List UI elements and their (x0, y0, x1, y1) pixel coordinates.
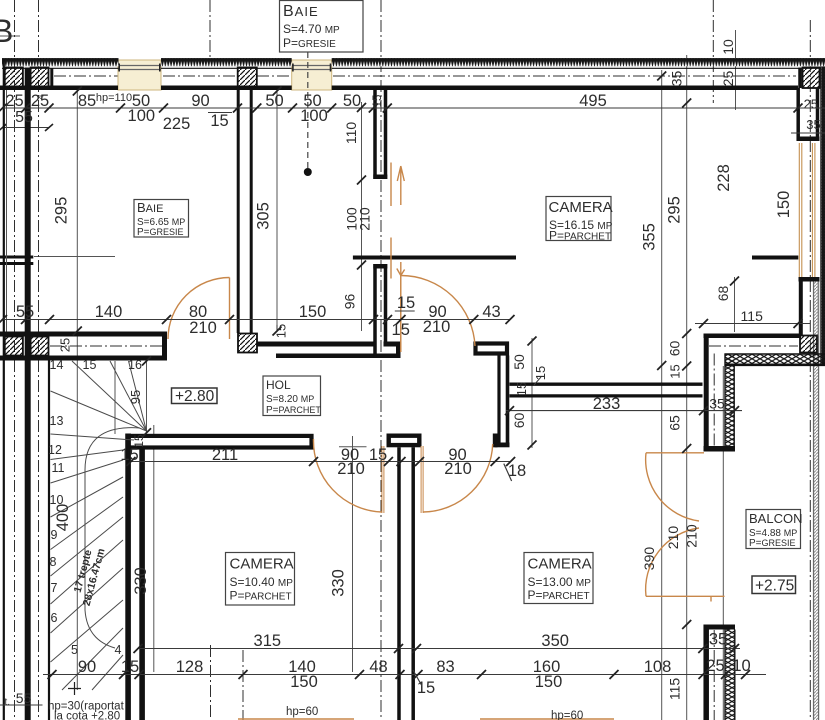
svg-text:355: 355 (641, 223, 659, 251)
svg-text:P=PARCHET: P=PARCHET (266, 405, 321, 416)
svg-text:25: 25 (5, 92, 23, 110)
svg-text:35: 35 (669, 71, 685, 87)
svg-text:HOL: HOL (266, 378, 291, 392)
svg-text:P=PARCHET: P=PARCHET (230, 589, 292, 603)
svg-text:210: 210 (665, 526, 681, 550)
svg-text:BALCON: BALCON (749, 511, 802, 526)
svg-text:140: 140 (95, 303, 123, 321)
svg-text:la cota +2.80: la cota +2.80 (54, 711, 120, 720)
svg-text:233: 233 (593, 395, 621, 413)
svg-text:+2.80: +2.80 (175, 388, 215, 405)
svg-text:P=GRESIE: P=GRESIE (137, 227, 184, 238)
svg-text:65: 65 (667, 415, 683, 431)
svg-text:115: 115 (741, 308, 764, 324)
svg-text:55: 55 (15, 109, 33, 126)
svg-text:60: 60 (667, 341, 683, 357)
svg-text:330: 330 (330, 569, 348, 597)
svg-text:16: 16 (128, 358, 142, 372)
svg-text:S=4.70 MP: S=4.70 MP (283, 22, 340, 36)
svg-text:12: 12 (48, 443, 62, 457)
svg-text:15: 15 (369, 446, 387, 464)
svg-text:128: 128 (176, 658, 204, 676)
svg-text:9: 9 (51, 528, 58, 542)
svg-text:55: 55 (16, 690, 32, 706)
svg-text:CAMERA: CAMERA (230, 556, 294, 573)
svg-text:15: 15 (121, 658, 139, 676)
svg-text:210: 210 (189, 319, 217, 337)
svg-text:35: 35 (806, 117, 820, 132)
svg-text:25: 25 (720, 71, 736, 87)
svg-text:295: 295 (666, 196, 684, 224)
svg-text:CAMERA: CAMERA (528, 556, 592, 573)
svg-text:BAIE: BAIE (283, 3, 319, 20)
svg-text:210: 210 (337, 460, 365, 478)
svg-text:t.: t. (5, 697, 11, 708)
svg-text:110: 110 (343, 122, 359, 145)
svg-text:305: 305 (255, 202, 273, 230)
svg-text:150: 150 (535, 673, 563, 691)
svg-text:210: 210 (684, 524, 700, 548)
svg-text:P=GRESIE: P=GRESIE (749, 538, 796, 549)
svg-text:68: 68 (715, 286, 731, 302)
svg-text:390: 390 (641, 547, 657, 571)
svg-text:B: B (0, 13, 13, 49)
svg-text:50: 50 (511, 354, 527, 370)
svg-text:15: 15 (397, 294, 415, 312)
svg-text:315: 315 (254, 632, 282, 650)
svg-text:100: 100 (128, 107, 156, 125)
svg-text:50: 50 (265, 92, 283, 110)
svg-text:350: 350 (541, 632, 569, 650)
svg-text:95: 95 (128, 390, 143, 404)
svg-text:15: 15 (514, 382, 529, 396)
svg-text:90: 90 (78, 658, 96, 676)
svg-text:10: 10 (50, 493, 64, 507)
svg-text:25: 25 (31, 92, 49, 110)
svg-text:13: 13 (50, 414, 64, 428)
svg-text:25: 25 (58, 338, 73, 352)
svg-text:60: 60 (511, 413, 527, 429)
svg-text:115: 115 (667, 678, 683, 701)
svg-text:S=8.20 MP: S=8.20 MP (266, 394, 314, 405)
svg-text:P=PARCHET: P=PARCHET (549, 229, 611, 243)
svg-text:210: 210 (423, 318, 451, 336)
svg-text:225: 225 (163, 115, 191, 133)
svg-text:25: 25 (706, 657, 724, 675)
svg-text:83: 83 (436, 658, 454, 676)
svg-text:14: 14 (50, 358, 64, 372)
svg-text:S=10.40 MP: S=10.40 MP (230, 575, 294, 589)
svg-text:11: 11 (52, 461, 65, 475)
svg-text:150: 150 (299, 303, 327, 321)
svg-text:15: 15 (274, 324, 289, 338)
svg-text:hp=60: hp=60 (551, 710, 583, 720)
svg-text:8: 8 (50, 555, 57, 569)
svg-text:7: 7 (51, 581, 58, 595)
svg-text:4: 4 (115, 643, 122, 657)
svg-text:150: 150 (290, 673, 318, 691)
svg-text:85: 85 (78, 92, 96, 110)
svg-text:108: 108 (644, 658, 672, 676)
svg-text:10: 10 (720, 39, 736, 55)
svg-text:43: 43 (482, 303, 500, 321)
svg-text:15: 15 (120, 446, 138, 464)
svg-text:15: 15 (83, 358, 97, 372)
svg-text:10: 10 (732, 657, 750, 675)
svg-text:hp=60: hp=60 (286, 706, 318, 718)
svg-text:35: 35 (709, 631, 727, 649)
svg-text:50: 50 (343, 92, 361, 110)
svg-text:hp=110: hp=110 (96, 92, 132, 104)
svg-text:15: 15 (668, 364, 683, 378)
svg-text:25: 25 (804, 97, 818, 112)
svg-text:96: 96 (342, 294, 358, 310)
svg-text:+2.75: +2.75 (755, 578, 794, 595)
svg-text:210: 210 (357, 207, 373, 231)
svg-text:15: 15 (372, 95, 384, 108)
svg-text:P=GRESIE: P=GRESIE (283, 36, 336, 50)
svg-text:295: 295 (53, 197, 71, 225)
svg-text:210: 210 (444, 460, 472, 478)
svg-text:BAIE: BAIE (137, 200, 163, 215)
svg-text:35: 35 (709, 396, 725, 412)
svg-text:150: 150 (775, 191, 793, 219)
svg-text:330: 330 (132, 567, 150, 595)
svg-text:S=13.00 MP: S=13.00 MP (528, 575, 592, 589)
svg-text:48: 48 (369, 658, 387, 676)
svg-text:495: 495 (579, 92, 607, 110)
svg-text:90: 90 (191, 92, 209, 110)
svg-text:6: 6 (51, 611, 58, 625)
svg-text:228: 228 (715, 164, 733, 192)
svg-text:15: 15 (392, 321, 410, 339)
svg-text:15: 15 (210, 112, 228, 130)
svg-text:15: 15 (132, 434, 146, 448)
svg-text:CAMERA: CAMERA (549, 199, 613, 216)
svg-text:55: 55 (16, 303, 34, 321)
svg-text:100: 100 (300, 107, 328, 125)
svg-text:211: 211 (212, 446, 238, 464)
svg-text:P=PARCHET: P=PARCHET (528, 588, 590, 602)
svg-text:5: 5 (71, 643, 78, 657)
